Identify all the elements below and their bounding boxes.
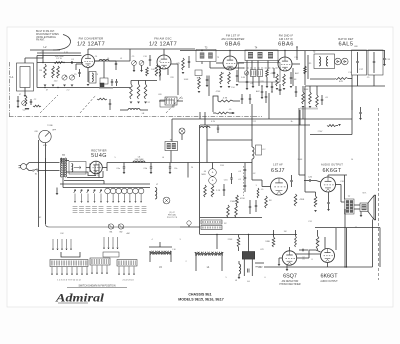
- svg-text:Admiral: Admiral: [55, 293, 105, 305]
- tube V4 6BA6 second IF: [278, 57, 292, 71]
- drops from load boxes: [357, 75, 359, 86]
- coil L8: [128, 109, 140, 111]
- osc section coil L9: [159, 66, 161, 76]
- wafer S2B bars: [201, 220, 222, 224]
- coil L5 bottom: [149, 246, 172, 248]
- tube V3 6BA6 first IF: [223, 56, 237, 70]
- bus y217: [200, 217, 262, 219]
- wires plug to transformer: [40, 162, 60, 164]
- wire into V9 grid: [295, 253, 320, 255]
- cap stack right of box: [271, 86, 273, 88]
- AM loop chain circles: [105, 188, 111, 194]
- V5 wires: [252, 179, 262, 181]
- caps cluster y205: [255, 204, 257, 206]
- cap C5a: [78, 72, 80, 74]
- resistor 120K: [272, 237, 275, 247]
- resistor R8: [137, 84, 140, 99]
- tube V7 6SQ7: [282, 251, 296, 265]
- resistor 470K: [294, 194, 297, 206]
- wafer S2A bar: [61, 252, 80, 257]
- V7 bottom pins: [286, 265, 288, 269]
- FM tuning trimmer C5: [69, 75, 74, 80]
- cap C23: [265, 96, 267, 98]
- cap at L10: [217, 127, 219, 129]
- FM tuning trimmer C4: [62, 75, 67, 80]
- long rail y119: [200, 118, 352, 120]
- svg-text:FM 2ND IF: FM 2ND IF: [279, 34, 294, 38]
- gang dashed link 2: [80, 95, 96, 113]
- loop antenna L1: [17, 63, 34, 91]
- tube V6 6K6GT: [321, 177, 336, 192]
- cap C34: [301, 249, 303, 251]
- coil L4a above box: [99, 59, 109, 61]
- svg-text:W.T.: W.T.: [362, 193, 366, 195]
- svg-text:TONE: TONE: [47, 125, 53, 127]
- resistor R4: [57, 66, 60, 78]
- osc coil L12 cluster: [252, 147, 254, 159]
- AM gang dash link: [243, 67, 281, 69]
- wafer S2B strokes: [103, 237, 105, 242]
- heater rect box: [69, 162, 86, 175]
- cap C13: [188, 61, 190, 63]
- T4 verticals: [246, 61, 248, 71]
- switch enclosure box: [46, 158, 181, 227]
- det cluster grounds: [302, 106, 305, 108]
- arrows under bars: [51, 267, 53, 275]
- speaker rim: [375, 195, 377, 220]
- svg-text:PHONO RECTIFIER: PHONO RECTIFIER: [279, 284, 301, 286]
- wires V1 cathode: [76, 63, 82, 65]
- radio-phono switch: [187, 221, 191, 225]
- svg-text:6K6GT: 6K6GT: [322, 168, 341, 174]
- trimmer cluster under T4: [244, 71, 248, 75]
- svg-text:220K: 220K: [228, 239, 233, 241]
- cap C11: [149, 59, 151, 61]
- cap C28: [249, 205, 251, 207]
- fm det cluster resistors: [302, 92, 305, 104]
- wafer S2B box: [103, 252, 119, 257]
- ratio det load box 2: [368, 50, 383, 75]
- ground below L1: [24, 91, 26, 95]
- wires fm det: [213, 96, 218, 112]
- wire x297: [296, 47, 298, 60]
- FM section dash-dot boundary: [9, 116, 262, 118]
- junction dots top rail: [229, 50, 230, 51]
- main vertical rails: [206, 125, 208, 140]
- switch contacts row: [74, 190, 75, 191]
- resistor R12: [211, 185, 214, 197]
- svg-text:6BA6: 6BA6: [225, 42, 241, 48]
- B+ rail extension: [207, 162, 252, 164]
- svg-text:AM: AM: [127, 232, 130, 235]
- ratio det transformer T5: [314, 54, 335, 69]
- svg-text:FM CONVERTER: FM CONVERTER: [79, 37, 104, 41]
- V9 cathode parts: [327, 263, 329, 268]
- svg-text:AM 1ST IF: AM 1ST IF: [279, 37, 293, 41]
- AC plug P1: [21, 164, 27, 170]
- resistor R5: [155, 65, 158, 76]
- svg-text:FM 1ST IF: FM 1ST IF: [226, 34, 240, 38]
- cap under T3: [206, 79, 208, 81]
- ratio det bottom wires: [310, 78, 335, 80]
- resistor R7: [130, 84, 133, 99]
- antenna trimmer C2: [22, 101, 27, 106]
- tube V9 6K6GT lower: [321, 249, 335, 263]
- resistor 22K: [304, 66, 307, 74]
- cap C15: [223, 188, 225, 190]
- dark padder block: [100, 83, 104, 87]
- stacked caps: [244, 168, 246, 170]
- svg-text:21 22 23 24: 21 22 23 24: [123, 280, 135, 282]
- svg-text:1/2 12AT7: 1/2 12AT7: [149, 42, 177, 48]
- resistor R13: [204, 185, 207, 197]
- svg-text:5U4G: 5U4G: [91, 153, 107, 159]
- resistor R9: [144, 84, 147, 99]
- IF transformer T3: [196, 50, 216, 62]
- parts x15-30 y97-107: [17, 100, 19, 102]
- parts right of L12: [265, 196, 268, 208]
- AM tuning cluster box: [239, 63, 281, 83]
- phono jacks M1 M2: [108, 224, 113, 229]
- volume control R30 on-off: [39, 130, 51, 142]
- svg-text:IM: IM: [269, 200, 272, 202]
- svg-text:FM: FM: [61, 233, 64, 235]
- svg-text:6AL5: 6AL5: [338, 42, 353, 48]
- svg-text:PILOT LTS: PILOT LTS: [167, 217, 178, 219]
- svg-text:+: +: [212, 171, 214, 175]
- rail y125: [200, 124, 310, 126]
- pilot lights: [163, 197, 170, 204]
- voice coil: [360, 203, 368, 212]
- svg-text:FM AM OSC: FM AM OSC: [154, 37, 172, 41]
- bus to left: [200, 234, 297, 236]
- svg-text:DISCONNECT WHEN: DISCONNECT WHEN: [36, 34, 59, 36]
- resistor under T3: [198, 77, 201, 89]
- 6AL5 diode a: [335, 58, 342, 65]
- box L7: [160, 100, 174, 107]
- svg-text:BUILT IN FM ANT.: BUILT IN FM ANT.: [36, 30, 55, 33]
- components below V4: [276, 74, 279, 86]
- FM dipole L2 lead: [53, 35, 70, 51]
- resistor R10: [182, 58, 185, 70]
- cap C16: [230, 177, 232, 179]
- ground: [27, 108, 30, 110]
- svg-text:500 OHM: 500 OHM: [135, 159, 144, 161]
- IF can T6 small: [165, 142, 178, 151]
- svg-text:39K: 39K: [316, 241, 320, 243]
- osc coil box L3: [89, 72, 96, 84]
- svg-text:AUDIO OUTPUT: AUDIO OUTPUT: [321, 163, 343, 167]
- under-cluster drops: [252, 77, 254, 87]
- svg-text:1 2 3 4 5 6 7 8 9 10 11 12: 1 2 3 4 5 6 7 8 9 10 11 12: [57, 280, 81, 282]
- trimmer C10: [139, 61, 144, 66]
- electrolytic C19a: [209, 169, 217, 177]
- cap C18 right edge: [383, 58, 385, 60]
- coil L10: [200, 126, 210, 128]
- cap C7: [111, 81, 113, 83]
- resistor lower col: [237, 237, 240, 247]
- electrolytic C6c: [169, 166, 171, 168]
- output transformer T7: [345, 199, 355, 214]
- small parts near boundary: [109, 103, 111, 105]
- wire det verticals: [302, 86, 304, 92]
- resistor 470K col: [236, 195, 239, 205]
- extra caps in tuning box: [273, 72, 275, 74]
- V9 plate feed verticals: [324, 237, 326, 249]
- svg-text:SWITCH SHOWN IN FM POSITION: SWITCH SHOWN IN FM POSITION: [78, 285, 115, 287]
- svg-text:RATIO DET: RATIO DET: [338, 37, 354, 41]
- V7 ground: [279, 257, 282, 259]
- resistor R6: [146, 67, 149, 76]
- components below V1: resistor R2: [44, 64, 47, 78]
- svg-text:1ST AF: 1ST AF: [273, 163, 283, 167]
- wire plate to T7: [344, 175, 346, 199]
- FM boundary left edge dashed: [9, 62, 11, 117]
- svg-text:CHASSIS 9E1: CHASSIS 9E1: [188, 293, 211, 297]
- trimmer C9: [132, 61, 137, 66]
- svg-text:USING EXTERNAL: USING EXTERNAL: [36, 36, 57, 39]
- coil L4 bottom: [195, 252, 223, 254]
- speaker ground: [360, 212, 362, 216]
- electrolytic C19b: [209, 177, 217, 185]
- bottom bus: [180, 226, 200, 228]
- V6 wires: [316, 181, 321, 183]
- svg-text:470K: 470K: [216, 91, 221, 93]
- lower bus: [264, 266, 373, 268]
- wave magnet block: [242, 252, 254, 260]
- wave magnet legs: [243, 259, 245, 276]
- wire drops to box: [103, 61, 105, 78]
- svg-text:MFD: MFD: [201, 174, 206, 176]
- svg-text:MODELS 9E15, 9E16, 9E17: MODELS 9E15, 9E16, 9E17: [178, 298, 224, 302]
- wire V3 plate rail: [210, 67, 244, 69]
- choke L6: [133, 161, 145, 163]
- rail x199: [199, 125, 201, 235]
- heater stepped wires: [66, 172, 96, 176]
- 5U4 wires: [65, 160, 69, 162]
- bus line FM section: [37, 87, 130, 89]
- resistor 47K: [335, 78, 348, 80]
- wire mid vertical: [251, 159, 253, 180]
- svg-text:+: +: [212, 179, 214, 183]
- cluster: coupling box: [100, 78, 108, 84]
- svg-text:1/2 12AT7: 1/2 12AT7: [77, 42, 105, 48]
- svg-text:AUDIO OUTPUT: AUDIO OUTPUT: [320, 280, 338, 283]
- svg-text:100K: 100K: [184, 79, 189, 81]
- switch labels tiny: [73, 206, 78, 208]
- resistor 4.7K horiz: [218, 100, 233, 102]
- svg-text:AM DETECTOR: AM DETECTOR: [282, 280, 299, 283]
- padder cap box C12: [165, 97, 177, 105]
- grounds row under V4 area: [246, 88, 249, 90]
- svg-text:AM CONVERTER: AM CONVERTER: [221, 37, 244, 41]
- speaker cone: [368, 196, 374, 220]
- resistor 470 det: [327, 125, 336, 127]
- resistor row y113: [216, 112, 229, 114]
- svg-text:6K6GT: 6K6GT: [320, 274, 338, 280]
- svg-text:470K: 470K: [300, 199, 305, 201]
- wire x293 avc: [292, 68, 294, 86]
- svg-text:270V: 270V: [318, 131, 323, 133]
- svg-text:250K: 250K: [298, 159, 303, 161]
- resistor R1: [33, 105, 41, 107]
- boxed part B7: [195, 70, 202, 76]
- V3 pin wires: [216, 62, 223, 64]
- V1 cathode ground: [87, 84, 90, 86]
- wire antenna top: [25, 57, 43, 59]
- resistor 100 ohm: [54, 62, 63, 64]
- cap C25: [290, 179, 292, 181]
- svg-text:6.3V: 6.3V: [211, 121, 216, 123]
- resistor R22: [316, 236, 319, 249]
- svg-text:47K: 47K: [176, 63, 180, 65]
- volume dashed link: [243, 166, 245, 196]
- resistor 1MEG lower: [295, 236, 297, 247]
- wafer S2A strokes: [52, 239, 54, 244]
- wire bus under osc: [131, 80, 157, 82]
- resistor R15: [235, 205, 238, 218]
- svg-text:1M: 1M: [284, 231, 287, 233]
- svg-text:120K: 120K: [265, 241, 270, 243]
- second top line: [37, 52, 81, 54]
- extra caps right of V4: [295, 91, 297, 93]
- wire from T6 up: [171, 119, 173, 142]
- svg-text:1 MEG: 1 MEG: [230, 201, 237, 203]
- wires from volume: [38, 140, 40, 227]
- svg-text:150K: 150K: [304, 89, 309, 91]
- drop wires: [204, 112, 206, 125]
- svg-text:AVC: AVC: [256, 90, 261, 93]
- switch bars bottom row: [50, 260, 88, 267]
- svg-text:2.2K: 2.2K: [216, 190, 221, 192]
- B+ rail: [107, 162, 207, 164]
- cap C4 on rail: [71, 61, 73, 63]
- svg-text:AVC: AVC: [295, 72, 300, 75]
- svg-text:6BA6: 6BA6: [278, 42, 294, 48]
- svg-text:4.7K: 4.7K: [223, 98, 228, 100]
- gang dashed link 1: [40, 95, 58, 113]
- cap C14b: [261, 91, 263, 93]
- svg-text:470K: 470K: [240, 198, 245, 200]
- resistor 1 MEG: [257, 188, 259, 198]
- svg-text:47K: 47K: [339, 81, 343, 83]
- svg-text:1/2 W: 1/2 W: [56, 58, 61, 60]
- top rail: [180, 50, 385, 52]
- ratio det load box 1: [352, 50, 367, 75]
- antenna line y50: [30, 49, 60, 51]
- svg-text:6SJ7: 6SJ7: [271, 168, 285, 174]
- svg-text:FM DIAL: FM DIAL: [168, 214, 177, 217]
- resistor R3: [52, 66, 55, 78]
- dashed border right: [378, 108, 380, 280]
- cap C14: [246, 81, 248, 83]
- tube V2 pins down: [159, 69, 161, 81]
- wire grid line: [37, 55, 82, 57]
- 5U4 pin drops: [89, 164, 91, 173]
- svg-text:6SQ7: 6SQ7: [283, 274, 297, 280]
- svg-text:1M: 1M: [39, 70, 42, 72]
- lower audio wires: [289, 247, 291, 251]
- svg-text:RECTIFIER: RECTIFIER: [91, 149, 107, 153]
- gang dashed link 3: [166, 96, 182, 113]
- IF transformer T4 wide can: [245, 50, 278, 61]
- T3 secondary drop: [208, 76, 210, 97]
- wire plate to right: [95, 60, 131, 62]
- wire osc top: [130, 48, 164, 50]
- 6AL5 diode b: [342, 58, 349, 65]
- det box line: [310, 134, 352, 136]
- grid rail y62.5: [37, 62, 83, 64]
- screen components under V3: [220, 72, 223, 84]
- bus upper right: [315, 227, 380, 229]
- cap C21: [241, 98, 243, 100]
- phono motor jack: [179, 128, 185, 134]
- cap C27: [327, 201, 329, 203]
- ground at switch left: [56, 188, 58, 194]
- resistor 270: [314, 196, 317, 207]
- tube V1 1/2 12AT7 FM converter: [82, 55, 95, 68]
- ground symbols under FM front end: [44, 85, 47, 87]
- phono input stub: [255, 262, 264, 264]
- cap C7a: [115, 63, 117, 65]
- on-off switch S1: [32, 170, 34, 172]
- cap C22: [249, 98, 251, 100]
- wire det out: [351, 75, 353, 86]
- bus under V6: [305, 191, 316, 193]
- cap C8: [115, 81, 117, 83]
- paper edge: [7, 27, 393, 307]
- tube V2 1/2 12AT7 oscillator: [157, 55, 171, 69]
- cap C3: [30, 101, 32, 103]
- resistor R14: [227, 205, 230, 218]
- wires under trimmers: [133, 66, 135, 71]
- coupling cap C26: [308, 179, 310, 181]
- switch rail: [63, 187, 150, 189]
- svg-text:FM ANT.: FM ANT.: [36, 39, 45, 42]
- tube V5 6SJ7: [271, 178, 288, 195]
- small coil L3: [239, 264, 241, 274]
- cap near top right: [359, 112, 361, 114]
- svg-text:C6c: C6c: [174, 168, 178, 170]
- tube V8 5U4G: [90, 161, 103, 174]
